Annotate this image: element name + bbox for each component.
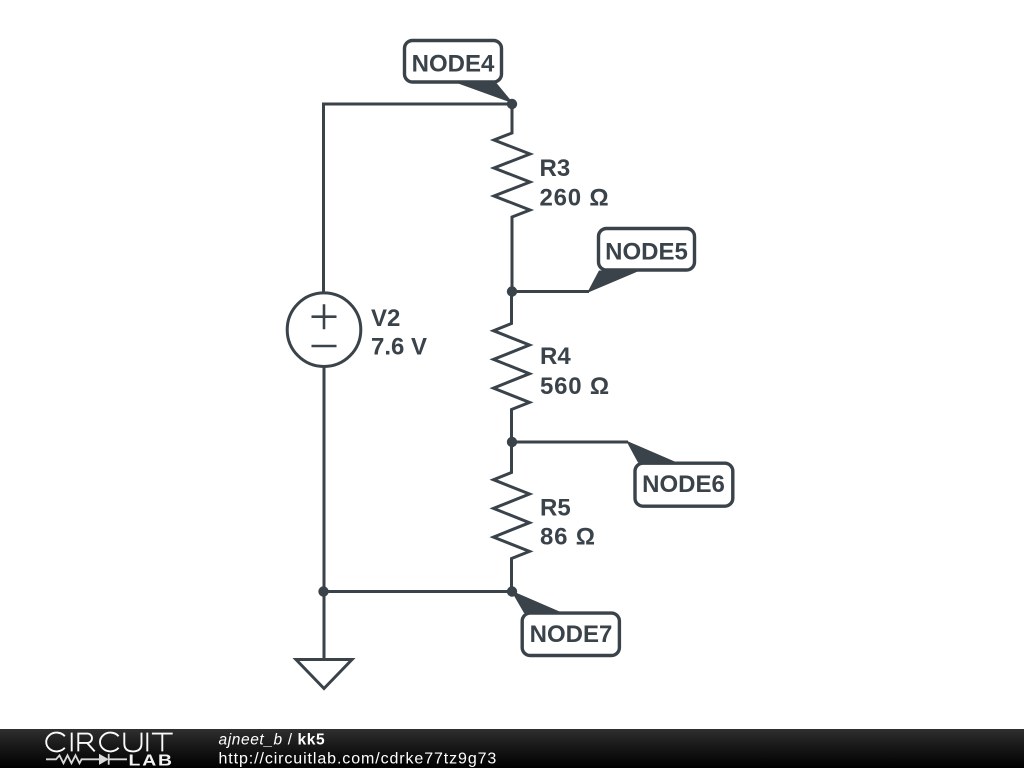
svg-text:260 Ω: 260 Ω — [540, 185, 610, 212]
wire bottom horizontal from V2 to NODE7 — [324, 590, 512, 593]
svg-text:LAB: LAB — [129, 751, 174, 768]
resistor R5 — [494, 442, 530, 592]
resistor R4 — [494, 292, 530, 443]
footer bar — [0, 729, 1024, 768]
wire V2 bottom lead — [323, 367, 326, 592]
svg-text:NODE7: NODE7 — [530, 621, 613, 648]
svg-text:NODE4: NODE4 — [412, 51, 495, 78]
node NODE5 label box — [599, 229, 695, 271]
footer logo diode triangle — [99, 754, 109, 765]
V2 minus sign — [312, 345, 337, 348]
node NODE7 junction dot — [507, 586, 517, 596]
footer logo resistor-diode line — [46, 754, 127, 765]
junction dot V2 bottom — [318, 586, 328, 596]
wire NODE5 stub — [512, 290, 590, 293]
svg-text:560 Ω: 560 Ω — [540, 373, 610, 400]
svg-text:86 Ω: 86 Ω — [540, 524, 596, 551]
svg-text:NODE6: NODE6 — [642, 471, 725, 498]
wire top horizontal from V2 top to NODE4 — [324, 103, 513, 106]
wire V2 top lead — [322, 103, 325, 293]
V2 plus sign — [312, 304, 337, 329]
svg-text:NODE5: NODE5 — [605, 239, 688, 266]
node NODE6 label box — [635, 463, 733, 506]
callout pointer NODE5 — [587, 271, 640, 294]
callout pointer NODE7 — [511, 591, 563, 614]
callout pointer NODE4 — [454, 80, 514, 104]
node NODE4 junction dot — [507, 99, 517, 109]
svg-text:R3: R3 — [540, 155, 571, 182]
footer logo CIRCUIT wordmark — [46, 733, 172, 752]
node NODE4 label box — [405, 41, 502, 83]
svg-text:7.6 V: 7.6 V — [371, 334, 427, 361]
svg-text:V2: V2 — [371, 305, 400, 332]
svg-text:http://circuitlab.com/cdrke77t: http://circuitlab.com/cdrke77tz9g73 — [219, 751, 498, 768]
resistor R3 — [494, 104, 530, 292]
wire NODE6 stub — [512, 441, 629, 444]
voltage source V2 — [287, 293, 361, 367]
node NODE6 junction dot — [507, 437, 517, 447]
wire ground stem — [323, 592, 326, 660]
callout pointer NODE6 — [626, 441, 677, 463]
svg-text:R4: R4 — [540, 343, 571, 370]
ground — [296, 660, 352, 689]
svg-text:ajneet_b / kk5: ajneet_b / kk5 — [219, 732, 326, 749]
node NODE5 junction dot — [507, 286, 517, 296]
node NODE7 label box — [522, 613, 619, 655]
svg-text:R5: R5 — [540, 495, 571, 522]
